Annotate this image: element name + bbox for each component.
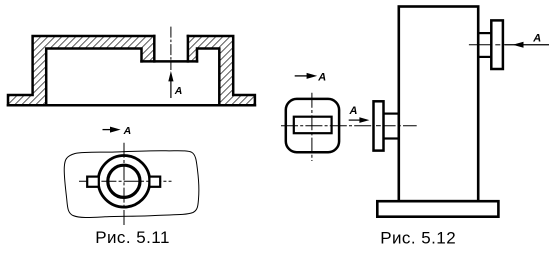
right centerline over disc xyxy=(505,44,549,46)
slot rectangle xyxy=(294,117,332,134)
left key tab xyxy=(87,177,99,187)
right disc center dash xyxy=(495,44,500,46)
svg-text:Рис. 5.11: Рис. 5.11 xyxy=(95,228,170,247)
svg-text:A: A xyxy=(174,85,183,97)
left disc center dash xyxy=(376,125,381,127)
view arrow A (pointing up at hole) xyxy=(168,71,182,98)
hatched cut area left (wall + flange + top band + boss left) xyxy=(8,36,154,105)
left knob neck xyxy=(384,114,400,139)
right knob centerline xyxy=(469,44,549,46)
svg-text:A: A xyxy=(349,105,358,117)
svg-text:Рис. 5.12: Рис. 5.12 xyxy=(380,228,456,247)
outer contour left part xyxy=(8,36,154,105)
svg-text:A: A xyxy=(317,72,326,84)
left knob disc xyxy=(374,101,384,150)
freehand break boundary blob xyxy=(64,151,199,218)
outer circle xyxy=(98,156,150,208)
hole right wall xyxy=(187,36,190,61)
horizontal centerline xyxy=(79,180,172,182)
boss bottom line xyxy=(142,60,198,63)
view-A marker arrow xyxy=(103,125,132,137)
inner circle xyxy=(108,165,140,197)
right knob disc xyxy=(491,20,503,69)
inner cavity right side xyxy=(197,49,219,106)
rounded square knob face (view A) xyxy=(286,99,339,152)
svg-text:A: A xyxy=(123,125,132,137)
right knob neck xyxy=(477,33,492,57)
right key tab xyxy=(149,177,160,187)
left knob horizontal centerline xyxy=(281,125,417,127)
vertical centerline xyxy=(123,143,125,226)
view-A marker above square xyxy=(295,72,327,84)
inner cavity left wall xyxy=(46,49,141,106)
square vertical centerline xyxy=(311,93,313,161)
base plate xyxy=(377,201,498,217)
right view arrow head (pointing left) xyxy=(513,42,524,48)
hatched cut area right (band right + boss right + wall + flange) xyxy=(188,36,255,105)
svg-text:A: A xyxy=(532,32,541,44)
left knob view arrow (pointing right) xyxy=(349,105,370,123)
outer contour right part xyxy=(188,36,255,105)
hole centerline xyxy=(170,27,172,70)
hole left wall xyxy=(153,36,156,61)
column body xyxy=(399,7,478,202)
body outline thick strokes xyxy=(8,36,255,105)
bottom line xyxy=(8,104,255,107)
